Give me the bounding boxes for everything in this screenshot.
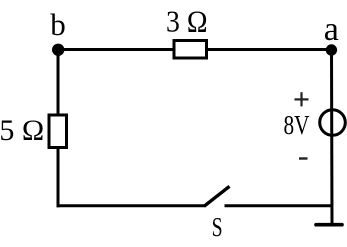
node a (junction dot)	[326, 44, 337, 55]
wire: top right segment R1 to a	[205, 48, 332, 51]
node b (junction dot)	[52, 44, 64, 56]
label: + polarity of source	[295, 92, 309, 106]
label: - polarity of source	[299, 157, 308, 159]
wire: left lower segment R2 to bottom-left corner	[57, 146, 60, 207]
svg-text:a: a	[324, 11, 339, 48]
switch S blade (open, diagonal)	[204, 186, 230, 206]
wire: left upper segment b to resistor R2	[57, 50, 60, 118]
svg-text:3 Ω: 3 Ω	[166, 4, 208, 39]
resistor R2 5 ohm (box)	[49, 115, 67, 148]
wire: top left segment b to resistor R1	[58, 48, 176, 51]
voltage source V1 8V (circle)	[320, 110, 346, 136]
svg-text:b: b	[50, 7, 66, 42]
svg-text:5 Ω: 5 Ω	[0, 114, 44, 147]
ground symbol	[316, 223, 342, 227]
wire: right branch a down through source to ground	[330, 50, 334, 226]
wire: bottom right segment switch to right branch	[225, 204, 334, 207]
wire: bottom left segment to switch	[57, 204, 205, 207]
svg-text:8V: 8V	[284, 110, 310, 140]
resistor R1 3 ohm (box)	[174, 41, 207, 59]
svg-text:S: S	[212, 212, 223, 242]
